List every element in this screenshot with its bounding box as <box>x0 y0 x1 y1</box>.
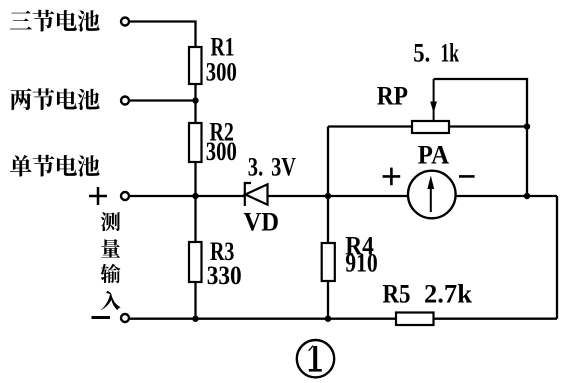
terminal 两节电池 <box>121 97 129 105</box>
terminal 三节电池 <box>121 18 129 26</box>
plus sign battery input <box>89 187 107 205</box>
wire RP left lead <box>328 125 412 127</box>
wire 两节电池 terminal to column <box>130 99 196 101</box>
minus sign battery input <box>92 316 111 319</box>
wire R5 to right <box>434 318 558 320</box>
svg-text:5.: 5. <box>413 39 430 68</box>
resistor R2 <box>189 123 202 162</box>
meter PA needle arrow <box>427 176 434 213</box>
meter PA circle <box>408 171 456 219</box>
wire top terminal to R1 column <box>130 22 196 48</box>
svg-text:3V: 3V <box>271 153 296 182</box>
junction node RP right <box>524 123 530 129</box>
wire right vertical down <box>556 196 558 319</box>
diode VD cathode bar <box>245 183 251 206</box>
svg-text:330: 330 <box>207 261 242 290</box>
resistor R4 <box>322 243 335 281</box>
svg-text:PA: PA <box>418 141 449 170</box>
figure number circle <box>297 340 334 377</box>
junction node diode/R4 <box>325 193 331 199</box>
diode VD triangle <box>245 184 267 204</box>
svg-text:3.: 3. <box>248 153 263 182</box>
junction node R4 bottom <box>325 316 331 322</box>
RP wiper arrow shaft and head <box>430 79 437 121</box>
resistor R3 <box>189 242 202 282</box>
label 两节电池 <box>10 88 99 110</box>
terminal + 测量输入 <box>121 192 129 200</box>
wire R4 column top <box>327 127 329 244</box>
junction node meter right / wiper <box>524 193 530 199</box>
wire meter to right column <box>456 195 557 197</box>
resistor R1 <box>189 47 202 84</box>
wire R1 to R2 <box>194 84 196 123</box>
svg-text:300: 300 <box>206 58 237 87</box>
svg-text:VD: VD <box>244 208 280 237</box>
plus sign meter <box>383 168 401 186</box>
svg-text:2.7k: 2.7k <box>424 280 473 309</box>
wire main input to diode <box>130 195 245 197</box>
svg-text:910: 910 <box>345 249 378 278</box>
wire R4 to bottom <box>327 281 329 319</box>
minus sign meter <box>459 175 475 178</box>
junction node R1/R2 <box>192 97 198 103</box>
svg-text:1k: 1k <box>441 39 460 68</box>
label 测量输入 (vertical) <box>100 212 120 310</box>
resistor R5 <box>396 313 434 326</box>
junction node main wire / R column <box>192 193 198 199</box>
wire wiper to top right <box>434 79 527 196</box>
svg-text:RP: RP <box>377 82 408 111</box>
svg-text:R5: R5 <box>383 280 411 309</box>
wire RP right lead <box>449 125 527 127</box>
label 三节电池 <box>10 10 100 32</box>
junction node R3 bottom <box>192 316 198 322</box>
terminal - 测量输入 <box>121 314 129 322</box>
wire bottom left to R5 <box>130 318 397 320</box>
figure number digit 1 <box>308 345 322 370</box>
wire diode to meter <box>268 195 409 197</box>
label 单节电池 <box>10 155 100 177</box>
wire R2 to R3 <box>194 162 196 242</box>
potentiometer RP body <box>412 121 449 133</box>
wire R3 to bottom <box>194 282 196 319</box>
svg-text:300: 300 <box>206 137 237 166</box>
